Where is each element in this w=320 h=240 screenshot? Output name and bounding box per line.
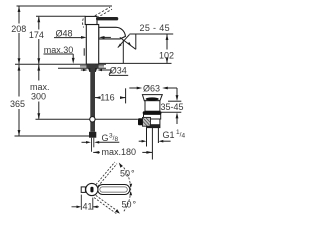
- arrow G38 right: [94, 141, 99, 144]
- wire 25-45 left extension: [135, 34, 137, 49]
- body circle: [86, 183, 98, 195]
- svg-text:102: 102: [159, 51, 174, 61]
- shank through deck: [86, 64, 98, 68]
- svg-text:max.30: max.30: [44, 45, 74, 55]
- wire waste centerline: [151, 128, 153, 160]
- wire 174 extension line: [36, 15, 85, 17]
- arrow 41 left: [77, 206, 82, 209]
- flexible hose: [90, 64, 95, 132]
- waste tailpipe: [146, 128, 148, 147]
- lever travel arc: [83, 19, 84, 28]
- wire 35-45 upper extension: [168, 100, 181, 102]
- dimension Ø63 line: [129, 87, 138, 89]
- spout stub (top view): [81, 187, 85, 193]
- arrow G38 left: [86, 141, 91, 144]
- hose connector: [89, 132, 96, 138]
- wire rim extension line right: [99, 62, 172, 64]
- cartridge knob (top view): [90, 187, 93, 193]
- swing lever lower (phantom): [94, 195, 118, 213]
- dimension 35-45 vertical: [176, 88, 178, 97]
- svg-text:50°: 50°: [120, 168, 135, 178]
- arrow Ø48 left tip (opposing): [99, 36, 105, 39]
- dimension 116 tails: [95, 97, 99, 99]
- arrow max180 left: [93, 151, 99, 154]
- wire top extension line (208 reference): [17, 5, 113, 7]
- dimension max180 tails: [93, 151, 100, 153]
- waste upper tube: [145, 101, 160, 112]
- dimension 102 vertical line: [166, 35, 168, 50]
- leader A to spout outlet: [118, 35, 130, 48]
- threaded section: [147, 119, 160, 128]
- arrow 208 top: [18, 6, 21, 12]
- dimension 365 vertical line: [18, 65, 20, 97]
- tick near body: [83, 48, 85, 56]
- svg-text:G11/4: G11/4: [163, 129, 186, 140]
- svg-text:max.180: max.180: [102, 147, 137, 157]
- arrow 102 bottom: [166, 57, 169, 63]
- svg-text:Ø48: Ø48: [56, 29, 73, 39]
- leader G3/8 underline: [98, 141, 120, 143]
- wire 116 right extension: [125, 88, 127, 103]
- svg-text:50°: 50°: [122, 200, 137, 210]
- arrow 208 bottom: [18, 58, 21, 64]
- arrow 116 left: [95, 96, 101, 99]
- arrow Ø34 left: [83, 69, 88, 72]
- rubber seal: [143, 111, 162, 114]
- arrow 35-45 up: [176, 112, 179, 118]
- dimension 25-45 line: [130, 33, 174, 35]
- arrow max300 top: [37, 65, 40, 71]
- dimension Ø34 arrows tails: [81, 69, 85, 71]
- svg-text:25 - 45: 25 - 45: [140, 23, 170, 33]
- swing lever upper (phantom): [96, 162, 117, 186]
- arrow 35-45 down: [176, 95, 179, 101]
- leader max30 underline: [44, 53, 74, 55]
- arrow 365 top: [18, 65, 21, 71]
- shank nut under deck: [88, 68, 97, 72]
- wire pop-up rod line: [36, 118, 138, 120]
- arrow arc bottom: [115, 209, 120, 214]
- wire deck extension line left: [15, 63, 58, 65]
- svg-text:G3/8: G3/8: [102, 132, 119, 142]
- leader Ø48 underline: [54, 37, 84, 39]
- arrow 116 right: [120, 96, 126, 99]
- faucet body: [86, 25, 98, 65]
- arrow Ø63 left: [137, 87, 143, 90]
- arrow 365 bottom: [18, 130, 21, 136]
- arrow max300 bottom: [37, 113, 40, 119]
- arrow arc mid upper: [130, 184, 133, 188]
- G3/8 tube: [92, 138, 94, 152]
- lever bar: [98, 185, 130, 195]
- rod node joint: [90, 117, 95, 122]
- waste flange: [142, 95, 162, 101]
- arrow arc top: [119, 163, 123, 168]
- arrow leader B mid: [128, 42, 132, 46]
- detail extension lines: [72, 195, 99, 210]
- locknut: [144, 114, 161, 119]
- svg-text:208: 208: [11, 24, 26, 34]
- arrow max180 right: [146, 151, 152, 154]
- svg-text:35-45: 35-45: [161, 102, 184, 112]
- leader G1 1/4: [139, 140, 143, 142]
- svg-text:Ø34: Ø34: [110, 66, 127, 76]
- wire aerator axis extension: [122, 40, 124, 63]
- svg-text:116: 116: [100, 92, 114, 102]
- svg-text:Ø63: Ø63: [143, 83, 160, 93]
- svg-text:365: 365: [10, 99, 25, 109]
- leader B from outlet: [120, 37, 136, 49]
- dimension max300 vertical line: [38, 65, 40, 81]
- rod knob: [138, 118, 143, 125]
- lever rod: [96, 17, 118, 20]
- arrow max30 down: [72, 58, 75, 64]
- cartridge cap: [85, 16, 97, 24]
- dimension 174 vertical line: [38, 17, 40, 30]
- svg-text:300: 300: [31, 91, 46, 101]
- arrow Ø63 right: [162, 87, 168, 90]
- arrow Ø34 right: [97, 69, 102, 72]
- svg-text:174: 174: [29, 30, 44, 40]
- arrow 174 top: [37, 16, 40, 22]
- lever raised (phantom): [83, 7, 112, 27]
- rod housing block: [143, 117, 151, 126]
- arrow 41 right: [93, 206, 98, 209]
- spout: [99, 27, 126, 39]
- arrow G114 right tip: [159, 140, 164, 143]
- svg-text:41: 41: [83, 202, 93, 212]
- arrow 174 bottom: [37, 58, 40, 64]
- wire 365 bottom extension line: [15, 135, 90, 137]
- arrow G114 left tip: [142, 140, 147, 143]
- dimension 41 tails: [72, 206, 78, 208]
- arrow Ø48 right tip: [81, 36, 87, 39]
- plug edge (dark): [146, 97, 159, 100]
- deck slab: [58, 63, 106, 65]
- swing arc: [124, 168, 131, 212]
- arrow arc mid lower: [129, 191, 132, 195]
- wire 35-45 lower extension: [161, 111, 181, 113]
- arrow leader A tip: [118, 44, 122, 48]
- leader Ø34 underline: [109, 74, 128, 76]
- dimension 208 vertical line: [18, 6, 20, 24]
- arrow 102 top: [166, 34, 169, 40]
